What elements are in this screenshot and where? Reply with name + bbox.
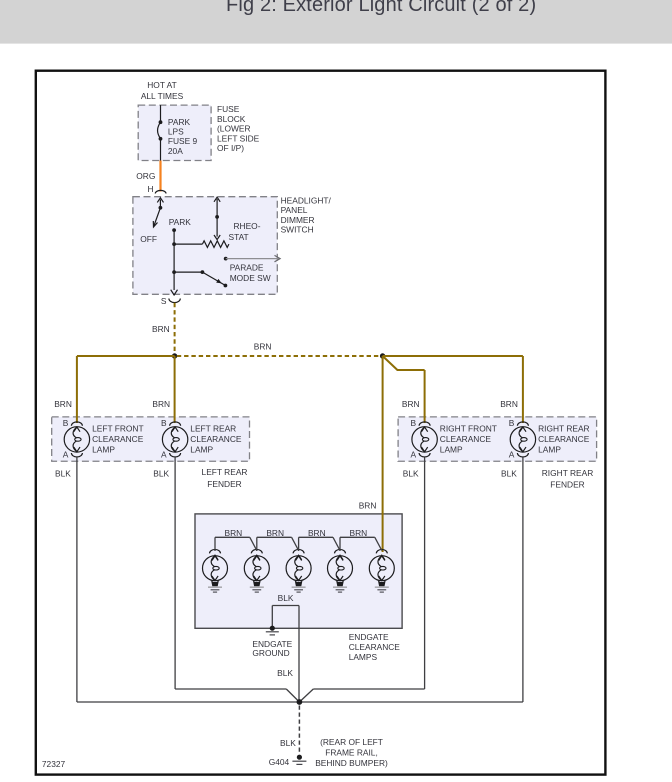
svg-text:BEHIND BUMPER): BEHIND BUMPER)	[315, 758, 388, 768]
svg-text:BRN: BRN	[225, 528, 243, 538]
svg-text:PARADE: PARADE	[230, 263, 264, 273]
svg-text:BRN: BRN	[350, 528, 368, 538]
svg-text:FUSE 9: FUSE 9	[168, 136, 198, 146]
svg-text:BLK: BLK	[280, 738, 296, 748]
svg-text:LPS: LPS	[168, 126, 184, 136]
svg-text:ORG: ORG	[136, 171, 155, 181]
svg-text:PARK: PARK	[168, 117, 191, 127]
svg-text:GROUND: GROUND	[252, 648, 289, 658]
svg-text:BLK: BLK	[55, 469, 71, 479]
svg-text:FENDER: FENDER	[207, 479, 241, 489]
svg-text:(REAR OF LEFT: (REAR OF LEFT	[320, 737, 383, 747]
svg-text:BLK: BLK	[403, 469, 419, 479]
svg-text:A: A	[161, 450, 167, 460]
svg-text:BRN: BRN	[254, 342, 272, 352]
svg-text:BRN: BRN	[152, 324, 170, 334]
svg-text:CLEARANCE: CLEARANCE	[190, 434, 242, 444]
svg-text:OFF: OFF	[140, 234, 157, 244]
svg-text:CLEARANCE: CLEARANCE	[349, 642, 401, 652]
svg-text:BRN: BRN	[402, 399, 420, 409]
svg-text:BLK: BLK	[153, 469, 169, 479]
svg-text:A: A	[411, 450, 417, 460]
svg-text:A: A	[63, 450, 69, 460]
svg-text:BRN: BRN	[500, 399, 518, 409]
svg-text:BLK: BLK	[277, 668, 293, 678]
svg-text:PANEL: PANEL	[281, 205, 308, 215]
svg-text:BRN: BRN	[54, 399, 72, 409]
svg-text:(LOWER: (LOWER	[217, 124, 251, 134]
svg-text:LAMP: LAMP	[440, 444, 463, 454]
svg-text:DIMMER: DIMMER	[281, 215, 315, 225]
svg-text:LAMP: LAMP	[190, 444, 213, 454]
svg-text:CLEARANCE: CLEARANCE	[440, 434, 492, 444]
svg-text:LEFT REAR: LEFT REAR	[190, 423, 236, 433]
svg-text:HEADLIGHT/: HEADLIGHT/	[281, 196, 332, 206]
svg-text:Fig 2: Exterior Light Circuit: Fig 2: Exterior Light Circuit (2 of 2)	[226, 0, 536, 16]
svg-text:BLK: BLK	[278, 593, 294, 603]
svg-text:HOT AT: HOT AT	[147, 80, 176, 90]
svg-text:PARK: PARK	[169, 217, 192, 227]
svg-text:A: A	[509, 450, 515, 460]
svg-text:CLEARANCE: CLEARANCE	[538, 434, 590, 444]
svg-text:20A: 20A	[168, 146, 183, 156]
svg-text:OF I/P): OF I/P)	[217, 143, 244, 153]
svg-text:B: B	[161, 418, 167, 428]
svg-text:BRN: BRN	[152, 399, 170, 409]
svg-text:LEFT SIDE: LEFT SIDE	[217, 133, 260, 143]
svg-text:H: H	[147, 184, 153, 194]
svg-text:BLK: BLK	[501, 469, 517, 479]
svg-text:BRN: BRN	[359, 501, 377, 511]
svg-text:LEFT REAR: LEFT REAR	[202, 467, 248, 477]
svg-text:ENDGATE: ENDGATE	[349, 632, 389, 642]
svg-text:G404: G404	[269, 757, 290, 767]
svg-text:SWITCH: SWITCH	[281, 225, 314, 235]
svg-text:RHEO-: RHEO-	[234, 221, 261, 231]
svg-text:CLEARANCE: CLEARANCE	[92, 434, 144, 444]
svg-text:LAMP: LAMP	[538, 444, 561, 454]
svg-text:B: B	[411, 418, 417, 428]
svg-text:RIGHT REAR: RIGHT REAR	[538, 423, 590, 433]
svg-text:LAMP: LAMP	[92, 444, 115, 454]
svg-text:BRN: BRN	[266, 528, 284, 538]
svg-text:ALL TIMES: ALL TIMES	[141, 91, 184, 101]
svg-text:MODE SW: MODE SW	[230, 273, 271, 283]
svg-text:S: S	[161, 296, 167, 306]
svg-text:72327: 72327	[42, 759, 66, 769]
svg-text:FUSE: FUSE	[217, 104, 240, 114]
svg-text:LEFT FRONT: LEFT FRONT	[92, 423, 144, 433]
svg-text:STAT: STAT	[229, 232, 249, 242]
svg-text:FRAME RAIL,: FRAME RAIL,	[325, 748, 378, 758]
svg-text:B: B	[63, 418, 69, 428]
svg-text:RIGHT FRONT: RIGHT FRONT	[440, 423, 497, 433]
svg-text:B: B	[509, 418, 515, 428]
svg-text:BLOCK: BLOCK	[217, 114, 246, 124]
svg-text:RIGHT REAR: RIGHT REAR	[542, 468, 594, 478]
svg-text:FENDER: FENDER	[550, 479, 584, 489]
svg-text:BRN: BRN	[308, 528, 326, 538]
svg-text:LAMPS: LAMPS	[349, 652, 378, 662]
